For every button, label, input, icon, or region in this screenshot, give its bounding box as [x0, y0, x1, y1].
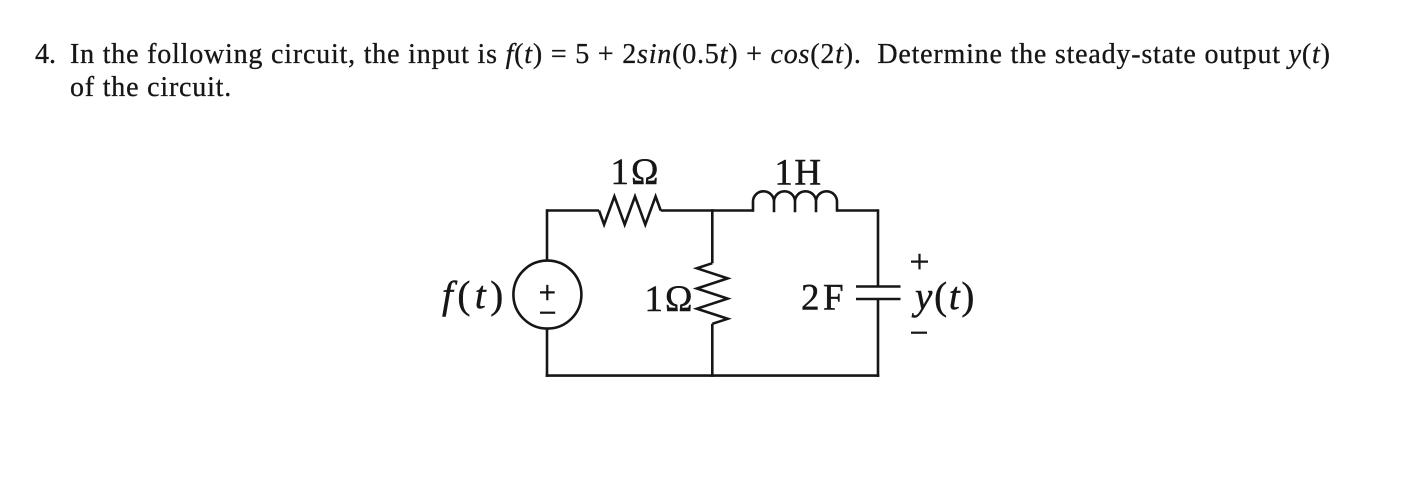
wire middle rail top — [711, 209, 714, 263]
svg-text:1Ω: 1Ω — [611, 152, 661, 193]
output plus sign — [911, 254, 928, 270]
label y(t) — [911, 275, 976, 318]
wire bottom — [546, 374, 880, 377]
inductor L1 1H — [753, 191, 837, 212]
resistor R2 1ohm shunt zigzag — [697, 263, 728, 324]
svg-text:1H: 1H — [774, 153, 822, 194]
svg-text:1Ω: 1Ω — [645, 279, 695, 320]
svg-text:y(t): y(t) — [911, 275, 976, 318]
wire left rail bottom — [546, 329, 549, 377]
voltage source plus sign — [540, 285, 555, 300]
label 1H — [774, 153, 822, 194]
wire top-right segment — [837, 209, 878, 212]
label f(t) — [442, 274, 508, 317]
problem statement line 1 — [35, 41, 56, 69]
svg-text:f(t): f(t) — [442, 274, 508, 317]
voltage source V1 circle — [513, 261, 581, 329]
svg-text:2F: 2F — [801, 278, 847, 319]
wire right rail bottom — [877, 299, 880, 377]
wire top-left segment — [547, 209, 599, 212]
label 1ohm shunt — [645, 279, 695, 320]
wire top-middle segment — [661, 209, 753, 212]
wire middle rail bottom — [711, 324, 714, 377]
problem statement line 2 — [70, 74, 232, 102]
wire right rail top — [877, 209, 880, 286]
label 1ohm series — [611, 152, 661, 193]
wire left rail top — [546, 209, 549, 260]
voltage source minus sign — [540, 312, 555, 314]
resistor R1 1ohm series zigzag — [599, 196, 661, 224]
capacitor C1 2F plates — [856, 287, 901, 300]
label 2F — [801, 278, 847, 319]
output minus sign — [911, 332, 927, 334]
